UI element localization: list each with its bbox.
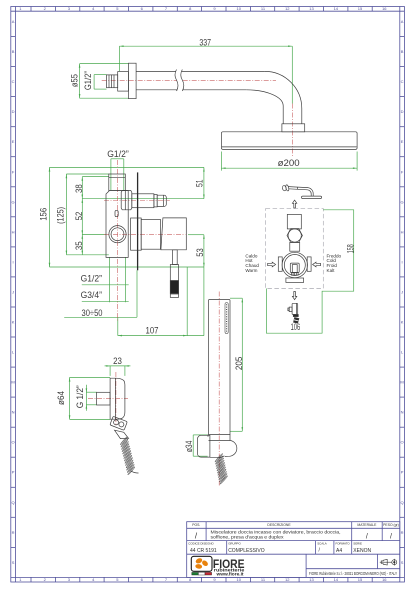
dashed wall box (266, 209, 324, 289)
svg-text:www.fiore.it: www.fiore.it (215, 572, 244, 577)
outlet vertical centerline (115, 372, 117, 426)
hose nut (110, 416, 127, 430)
shower arm view (70, 38, 358, 171)
outlet tube (132, 194, 166, 208)
svg-text:G1/2”: G1/2” (83, 71, 93, 90)
svg-text:106: 106 (291, 322, 301, 332)
dimension ø34 (184, 435, 208, 456)
svg-text:J: J (12, 289, 14, 294)
svg-text:MATERIALE: MATERIALE (357, 523, 377, 527)
svg-text:soffione, presa d'acqua e dupl: soffione, presa d'acqua e duplex (211, 535, 285, 540)
green outline 158/106 (266, 210, 353, 333)
hot labels (245, 253, 259, 272)
hose coil (120, 437, 135, 476)
title block (187, 522, 400, 578)
wall flange thread stub (107, 75, 118, 88)
handle cylinder (141, 219, 160, 249)
dimension 51 (194, 167, 204, 198)
svg-text:ø55: ø55 (70, 74, 80, 87)
arm centerline (102, 80, 276, 82)
svg-text:A: A (401, 19, 404, 24)
dimension 337 (119, 38, 292, 104)
svg-text:R: R (401, 530, 404, 535)
svg-text:Q: Q (12, 500, 15, 505)
mixer side view (38, 149, 205, 336)
mini shower arm icon (282, 185, 322, 199)
svg-text:M: M (11, 380, 14, 385)
svg-text:A: A (12, 19, 15, 24)
svg-text:30÷50: 30÷50 (82, 308, 103, 318)
svg-text:ø34: ø34 (184, 441, 194, 453)
hand shower view (184, 292, 244, 487)
svg-text:13: 13 (309, 577, 314, 582)
svg-text:16: 16 (382, 6, 387, 11)
svg-text:12: 12 (285, 577, 290, 582)
wand centerline (218, 292, 220, 487)
svg-text:POS.: POS. (192, 523, 200, 527)
valve top pipe (287, 214, 301, 229)
svg-text:Kalt: Kalt (327, 268, 336, 273)
svg-text:(125): (125) (55, 207, 65, 224)
cold arrow (313, 262, 321, 267)
svg-text:G 1/2”: G 1/2” (75, 385, 85, 408)
svg-text:158: 158 (345, 244, 355, 253)
dimension ø55 (70, 64, 129, 99)
hose cone (115, 430, 129, 438)
svg-text:I: I (402, 259, 403, 264)
outlet body (110, 378, 125, 419)
svg-text:CODICE DISEGNO: CODICE DISEGNO (188, 542, 214, 546)
pipe break symbol (175, 70, 184, 92)
temperature scale (292, 273, 299, 276)
projection symbol (380, 559, 397, 566)
svg-text:D: D (12, 109, 15, 114)
svg-text:GRUPPO: GRUPPO (228, 542, 241, 546)
svg-text:K: K (401, 320, 404, 325)
svg-text:P: P (12, 470, 15, 475)
wall plate (128, 63, 136, 98)
svg-text:G: G (12, 199, 15, 204)
union nut hex (287, 229, 302, 243)
dimension 23 (105, 356, 131, 376)
dimension G1/2" (83, 71, 106, 90)
svg-text:I: I (13, 259, 14, 264)
svg-text:53: 53 (195, 248, 205, 257)
mini hand shower icon (288, 303, 299, 323)
outlet centerline (88, 398, 128, 400)
head collar (282, 124, 305, 132)
lever rod (170, 250, 178, 298)
shower head ø200 (221, 132, 357, 150)
svg-text:G3/4”: G3/4” (81, 290, 102, 300)
dimension ø64 (56, 377, 110, 419)
label 30÷50 (64, 308, 137, 318)
thread stub (97, 392, 111, 405)
hot arrow (268, 262, 276, 267)
dimension G 1/2" (75, 385, 97, 411)
svg-text:A4: A4 (336, 548, 342, 554)
mixer body (106, 191, 128, 258)
dimensions 38 52 35 (74, 177, 204, 255)
arm tube (136, 71, 302, 123)
dimension 205 (230, 298, 244, 431)
svg-text:G1/2”: G1/2” (107, 149, 129, 159)
svg-text:10: 10 (236, 577, 241, 582)
valve base (286, 278, 304, 282)
dimension 107 (118, 267, 204, 336)
svg-text:/: / (366, 534, 368, 541)
svg-text:M: M (400, 380, 403, 385)
svg-text:FIORE Rubinetterie S.r.l.- 280: FIORE Rubinetterie S.r.l.- 28021 BORGOMA… (309, 571, 397, 576)
svg-text:B: B (12, 49, 15, 54)
svg-text:ø200: ø200 (278, 158, 300, 168)
svg-text:SERIE: SERIE (353, 542, 362, 546)
holder wall plate (198, 435, 210, 457)
svg-text:14: 14 (334, 6, 339, 11)
svg-text:SCALA: SCALA (317, 542, 327, 546)
svg-text:R: R (12, 530, 15, 535)
svg-text:PESO (gr): PESO (gr) (383, 523, 399, 527)
svg-text:16: 16 (382, 577, 387, 582)
svg-text:K: K (12, 320, 15, 325)
arrow down (292, 292, 296, 300)
svg-text:H: H (401, 229, 404, 234)
valve body circles (282, 252, 307, 277)
svg-text:N: N (12, 410, 15, 415)
svg-text:S: S (12, 560, 15, 565)
svg-text:ø64: ø64 (56, 391, 66, 405)
table grid (187, 522, 400, 578)
reference line top (50, 166, 204, 168)
svg-text:S: S (401, 560, 404, 565)
FIORE logo (191, 556, 245, 576)
svg-text:15: 15 (358, 6, 363, 11)
head centerline (291, 104, 293, 158)
cold labels (327, 253, 342, 272)
svg-text:H: H (12, 229, 15, 234)
side tabs (278, 257, 282, 271)
hose end tail (131, 471, 139, 473)
centerline outlet (104, 200, 170, 202)
svg-text:44 CR 5191: 44 CR 5191 (190, 548, 217, 554)
svg-text:E: E (12, 139, 15, 144)
svg-text:O: O (401, 440, 404, 445)
svg-text:FORMATO: FORMATO (336, 542, 351, 546)
inlet pipe top (109, 174, 126, 191)
dimension 156 (38, 167, 204, 267)
extension lines bottom (109, 257, 111, 302)
union circle (288, 229, 301, 242)
svg-text:/: / (390, 534, 392, 541)
outlet union nut (121, 191, 132, 210)
dimension ø200 (221, 152, 357, 171)
svg-text:Warm: Warm (245, 268, 257, 273)
volume control circles (109, 226, 126, 243)
svg-text:C: C (12, 79, 15, 84)
svg-text:COMPLESSIVO: COMPLESSIVO (228, 548, 265, 554)
label G3/4" (81, 290, 129, 301)
svg-text:51: 51 (194, 179, 204, 187)
svg-text:XENON: XENON (353, 548, 371, 554)
svg-text:O: O (12, 440, 15, 445)
hose coil (215, 453, 228, 484)
svg-text:D: D (401, 109, 404, 114)
wand body (209, 300, 231, 435)
valve neck (290, 242, 300, 251)
label G1/2" bottom (81, 273, 129, 284)
svg-text:156: 156 (38, 208, 48, 221)
wall outlet view (56, 356, 138, 475)
svg-text:Q: Q (401, 500, 404, 505)
set screw (115, 210, 118, 216)
svg-text:J: J (401, 289, 403, 294)
arrow up (292, 200, 296, 208)
wall line (137, 172, 139, 270)
installation schematic (245, 185, 355, 334)
svg-text:15: 15 (358, 577, 363, 582)
centerline handle (104, 234, 185, 236)
handle body (161, 218, 186, 250)
dimension 53 (188, 235, 205, 336)
svg-text:12: 12 (285, 6, 290, 11)
svg-text:E: E (401, 139, 404, 144)
svg-text:C: C (401, 79, 404, 84)
dimension G1/2" top (107, 149, 129, 190)
svg-text:N: N (401, 410, 404, 415)
svg-text:23: 23 (113, 356, 122, 366)
flange nut (118, 72, 129, 92)
svg-text:10: 10 (236, 6, 241, 11)
handle square (290, 263, 299, 272)
svg-text:P: P (401, 470, 404, 475)
svg-text:G: G (401, 199, 404, 204)
holder cup (208, 435, 237, 458)
centerline vertical (117, 160, 119, 322)
svg-text:DESCRIZIONE: DESCRIZIONE (267, 523, 291, 527)
svg-text:14: 14 (334, 577, 339, 582)
handle trim ring (131, 218, 142, 250)
svg-text:B: B (401, 49, 404, 54)
spray face strip (225, 303, 228, 334)
svg-text:G1/2”: G1/2” (81, 273, 102, 283)
svg-text:107: 107 (146, 325, 159, 335)
svg-text:13: 13 (309, 6, 314, 11)
dimension (125) (55, 174, 108, 255)
